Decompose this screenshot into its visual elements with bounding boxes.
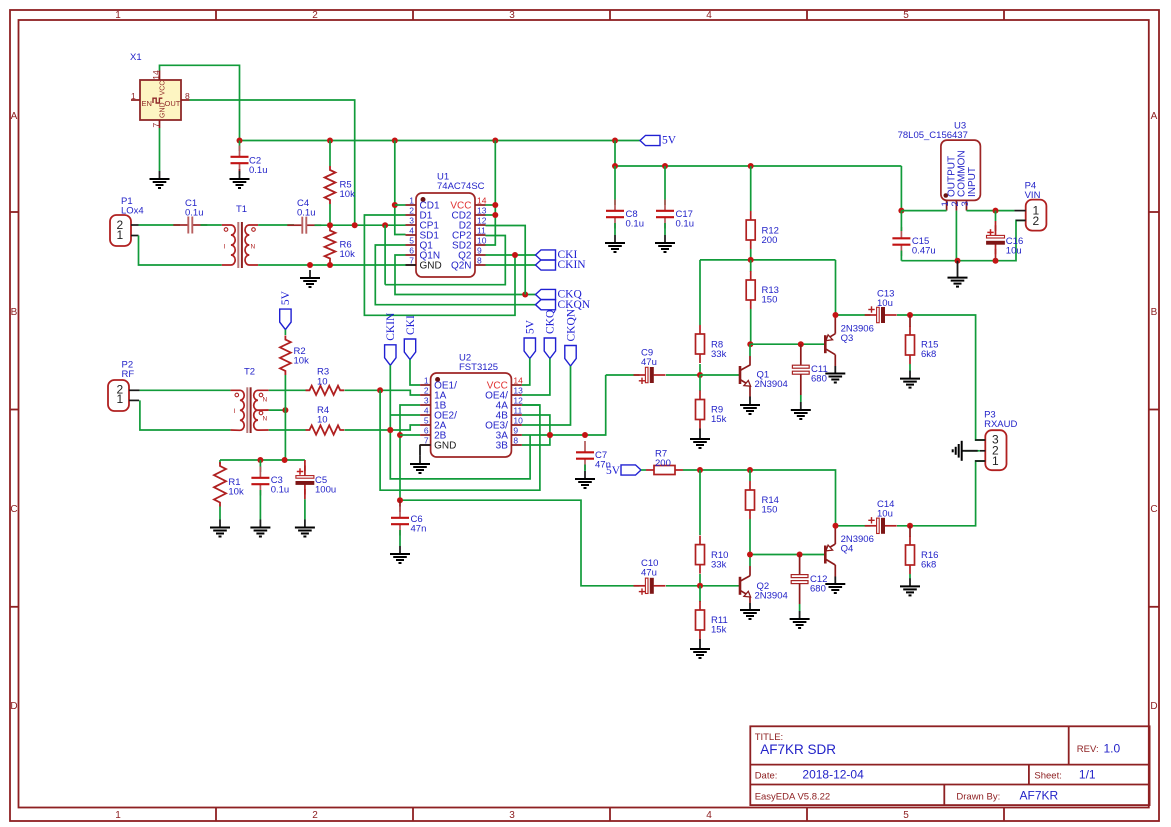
svg-text:RF: RF — [122, 369, 135, 380]
svg-text:10k: 10k — [294, 356, 310, 367]
svg-text:680: 680 — [810, 584, 826, 595]
svg-text:5: 5 — [409, 236, 414, 246]
svg-text:Q3: Q3 — [841, 333, 854, 344]
svg-text:1: 1 — [992, 454, 999, 468]
svg-text:10u: 10u — [1006, 246, 1022, 257]
svg-text:11: 11 — [513, 406, 522, 416]
svg-text:5V: 5V — [525, 319, 537, 334]
svg-text:Drawn By:: Drawn By: — [956, 791, 1000, 802]
svg-text:4: 4 — [706, 10, 712, 21]
svg-text:5V: 5V — [280, 290, 292, 305]
svg-text:200: 200 — [655, 458, 671, 469]
svg-text:N: N — [263, 397, 268, 404]
svg-text:10u: 10u — [877, 298, 893, 309]
svg-text:5: 5 — [424, 416, 429, 426]
svg-text:7: 7 — [424, 436, 429, 446]
svg-text:Sheet:: Sheet: — [1034, 770, 1061, 781]
svg-text:14: 14 — [477, 196, 487, 206]
svg-text:GND: GND — [434, 441, 456, 452]
svg-text:4: 4 — [424, 406, 429, 416]
svg-text:10k: 10k — [228, 487, 244, 498]
svg-text:0.1u: 0.1u — [185, 208, 204, 219]
svg-text:RXAUD: RXAUD — [984, 419, 1017, 430]
svg-text:B: B — [11, 307, 18, 318]
svg-text:3: 3 — [409, 216, 414, 226]
svg-text:C: C — [1150, 504, 1157, 515]
svg-text:GND: GND — [420, 261, 442, 272]
svg-text:3: 3 — [960, 201, 971, 206]
svg-text:I: I — [224, 244, 226, 251]
svg-text:Date:: Date: — [755, 770, 778, 781]
svg-text:3: 3 — [424, 396, 429, 406]
svg-text:2: 2 — [312, 10, 318, 21]
svg-text:15k: 15k — [711, 414, 727, 425]
svg-text:11: 11 — [477, 226, 486, 236]
svg-text:5: 5 — [903, 810, 909, 821]
svg-text:10: 10 — [513, 416, 523, 426]
svg-text:0.1u: 0.1u — [676, 219, 695, 230]
svg-text:10k: 10k — [340, 189, 356, 200]
svg-text:7: 7 — [409, 256, 414, 266]
svg-text:7: 7 — [151, 123, 161, 128]
svg-text:2: 2 — [1033, 214, 1040, 228]
svg-text:GND: GND — [160, 102, 167, 118]
svg-text:3: 3 — [509, 10, 515, 21]
svg-text:A: A — [11, 111, 18, 122]
svg-text:4: 4 — [706, 810, 712, 821]
svg-text:EasyEDA V5.8.22: EasyEDA V5.8.22 — [755, 791, 831, 802]
svg-text:CKQ: CKQ — [545, 309, 557, 334]
svg-text:REV:: REV: — [1077, 744, 1099, 755]
svg-text:OUT: OUT — [165, 99, 181, 108]
svg-text:1: 1 — [115, 810, 121, 821]
svg-text:47n: 47n — [411, 524, 427, 535]
svg-text:13: 13 — [513, 386, 523, 396]
svg-text:0.1u: 0.1u — [249, 165, 268, 176]
svg-text:CKI: CKI — [405, 315, 417, 335]
svg-text:2018-12-04: 2018-12-04 — [802, 768, 864, 782]
svg-text:5V: 5V — [606, 465, 621, 477]
svg-text:9: 9 — [477, 246, 482, 256]
svg-text:78L05_C156437: 78L05_C156437 — [898, 130, 968, 141]
svg-text:33k: 33k — [711, 349, 727, 360]
svg-text:5: 5 — [903, 10, 909, 21]
svg-text:14: 14 — [513, 376, 523, 386]
svg-text:N: N — [251, 244, 256, 251]
svg-text:150: 150 — [762, 505, 778, 516]
svg-text:10u: 10u — [877, 509, 893, 520]
svg-text:CKQN: CKQN — [565, 308, 577, 341]
svg-text:0.1u: 0.1u — [271, 485, 290, 496]
svg-text:8: 8 — [477, 256, 482, 266]
svg-text:6k8: 6k8 — [921, 560, 936, 571]
svg-text:6: 6 — [424, 426, 429, 436]
svg-text:6: 6 — [409, 246, 414, 256]
svg-text:CKIN: CKIN — [385, 312, 397, 341]
svg-text:12: 12 — [513, 396, 523, 406]
svg-text:D: D — [1150, 701, 1157, 712]
svg-text:AF7KR SDR: AF7KR SDR — [760, 742, 836, 757]
svg-text:T1: T1 — [236, 204, 247, 215]
svg-text:2: 2 — [409, 206, 414, 216]
svg-text:100u: 100u — [315, 485, 336, 496]
svg-text:74AC74SC: 74AC74SC — [437, 181, 485, 192]
svg-text:A: A — [1151, 111, 1158, 122]
svg-text:5V: 5V — [662, 135, 677, 147]
svg-text:10: 10 — [317, 376, 328, 387]
svg-text:LOx4: LOx4 — [121, 206, 144, 217]
svg-text:12: 12 — [477, 216, 487, 226]
svg-text:10k: 10k — [340, 249, 356, 260]
svg-text:Q4: Q4 — [841, 544, 854, 555]
svg-text:2N3904: 2N3904 — [755, 590, 788, 601]
svg-text:8: 8 — [513, 436, 518, 446]
svg-text:I: I — [234, 408, 236, 415]
svg-text:13: 13 — [477, 206, 487, 216]
svg-text:C: C — [10, 504, 17, 515]
svg-text:FST3125: FST3125 — [459, 362, 498, 373]
svg-text:0.1u: 0.1u — [626, 219, 645, 230]
svg-text:2: 2 — [312, 810, 318, 821]
svg-text:1: 1 — [424, 376, 429, 386]
svg-text:3B: 3B — [496, 441, 509, 452]
svg-text:150: 150 — [762, 295, 778, 306]
svg-text:B: B — [1151, 307, 1158, 318]
svg-text:3: 3 — [509, 810, 515, 821]
svg-text:CKIN: CKIN — [558, 259, 587, 271]
svg-text:47u: 47u — [641, 568, 657, 579]
svg-text:T2: T2 — [244, 367, 255, 378]
svg-text:D: D — [10, 701, 17, 712]
svg-text:2N3904: 2N3904 — [755, 379, 788, 390]
svg-text:680: 680 — [811, 374, 827, 385]
svg-text:INPUT: INPUT — [967, 167, 978, 197]
svg-text:10: 10 — [317, 414, 328, 425]
svg-text:200: 200 — [762, 235, 778, 246]
svg-text:14: 14 — [151, 70, 161, 80]
svg-text:X1: X1 — [130, 52, 142, 63]
svg-text:VCC: VCC — [160, 81, 167, 96]
svg-text:4: 4 — [409, 226, 414, 236]
svg-text:0.47u: 0.47u — [912, 246, 936, 257]
svg-text:8: 8 — [185, 91, 190, 101]
svg-text:EN: EN — [142, 99, 152, 108]
svg-text:1: 1 — [115, 10, 121, 21]
svg-text:1: 1 — [131, 91, 136, 101]
svg-text:1/1: 1/1 — [1079, 768, 1096, 782]
svg-text:1.0: 1.0 — [1104, 741, 1121, 755]
svg-text:VIN: VIN — [1025, 190, 1041, 201]
svg-text:15k: 15k — [711, 625, 727, 636]
svg-text:N: N — [263, 416, 268, 423]
svg-text:Q2N: Q2N — [451, 261, 472, 272]
svg-text:10: 10 — [477, 236, 487, 246]
svg-text:0.1u: 0.1u — [297, 208, 316, 219]
svg-text:AF7KR: AF7KR — [1020, 789, 1059, 803]
svg-text:1: 1 — [117, 228, 124, 242]
svg-text:9: 9 — [513, 426, 518, 436]
svg-text:47u: 47u — [641, 357, 657, 368]
svg-text:1: 1 — [117, 392, 124, 406]
svg-text:1: 1 — [409, 196, 414, 206]
svg-text:2: 2 — [424, 386, 429, 396]
svg-text:6k8: 6k8 — [921, 349, 936, 360]
svg-text:33k: 33k — [711, 560, 727, 571]
svg-text:COMMON: COMMON — [957, 150, 968, 197]
